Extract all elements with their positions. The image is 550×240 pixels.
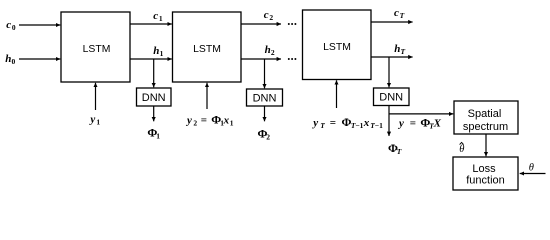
node dots after c2: [288, 23, 290, 25]
wire c2 out of LSTM2: [241, 23, 281, 25]
svg-text:DNN: DNN: [253, 92, 277, 104]
wire h0 into LSTM1: [19, 58, 60, 60]
svg-text:h1: h1: [153, 45, 163, 58]
svg-text:cT: cT: [394, 7, 405, 20]
svg-text:Spatial: Spatial: [468, 108, 502, 120]
svg-text:y2=Φ1x1: y2=Φ1x1: [185, 113, 234, 128]
wire spatial spectrum to loss function: [485, 134, 487, 156]
svg-text:c0: c0: [6, 19, 16, 32]
svg-text:Φ1: Φ1: [147, 125, 160, 140]
svg-text:h2: h2: [265, 44, 275, 57]
wire hT drop to DNN3: [388, 57, 390, 87]
svg-text:h0: h0: [5, 53, 15, 66]
svg-text:c1: c1: [153, 10, 163, 23]
wire hT out of LSTM3: [371, 56, 413, 58]
wire cT out of LSTM3: [371, 21, 413, 23]
box LSTM2: [173, 12, 242, 82]
wire h1 LSTM1 to LSTM2: [130, 58, 172, 60]
svg-text:y=ΦTX: y=ΦTX: [397, 116, 442, 131]
node dots after h2: [288, 58, 290, 60]
svg-text:θ: θ: [529, 162, 534, 173]
svg-text:Φ2: Φ2: [258, 126, 271, 141]
wire DNN1 output down: [153, 106, 155, 121]
svg-text:LSTM: LSTM: [323, 42, 351, 53]
wire y2 into LSTM2 bottom: [206, 83, 208, 109]
box LSTM1: [61, 12, 130, 82]
svg-text:y1: y1: [88, 113, 100, 126]
svg-text:function: function: [466, 174, 505, 186]
box DNN3: [374, 88, 410, 106]
wire c1 LSTM1 to LSTM2: [130, 23, 172, 25]
box DNN2: [247, 89, 283, 106]
box DNN1: [137, 88, 172, 106]
wire h2 out of LSTM2: [241, 58, 281, 60]
wire yT into LSTM3 bottom: [336, 80, 338, 108]
svg-text:LSTM: LSTM: [193, 44, 221, 55]
svg-text:ΦT: ΦT: [388, 141, 402, 156]
wire DNN2 output down: [264, 106, 266, 121]
wire theta into loss function: [520, 173, 546, 175]
svg-text:yT=ΦT−1xT−1: yT=ΦT−1xT−1: [311, 115, 383, 130]
wire c0 into LSTM1: [19, 24, 60, 26]
wire DNN3 output down to PhiT: [388, 106, 390, 137]
svg-text:DNN: DNN: [142, 92, 166, 104]
svg-text:DNN: DNN: [379, 92, 403, 104]
box loss function: [453, 157, 518, 190]
svg-text:θ: θ: [459, 144, 464, 155]
svg-text:spectrum: spectrum: [463, 121, 508, 133]
svg-text:c2: c2: [264, 9, 274, 22]
svg-text:Loss: Loss: [472, 163, 496, 175]
wire h2 drop to DNN2: [264, 59, 266, 88]
wire y1 into LSTM1 bottom: [95, 83, 97, 110]
wire y branch into spatial spectrum: [389, 113, 453, 115]
svg-text:LSTM: LSTM: [83, 44, 111, 55]
box spatial spectrum: [454, 101, 518, 134]
wire h1 drop to DNN1: [153, 59, 155, 87]
box LSTM3: [303, 10, 372, 80]
svg-text:hT: hT: [394, 43, 405, 56]
